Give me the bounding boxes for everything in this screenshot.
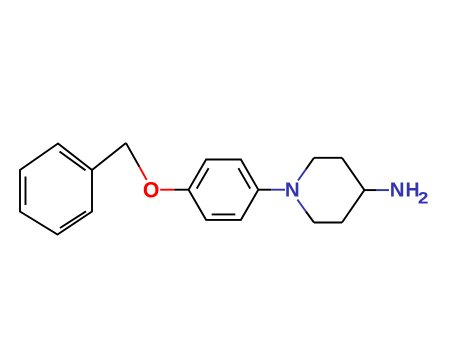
central benzene ring <box>189 160 259 220</box>
bond C4-NH2 black half <box>364 189 376 191</box>
NH2 amine label: H <box>405 179 419 202</box>
N atom label <box>285 179 300 202</box>
svg-text:O: O <box>143 177 160 203</box>
NH2 amine label: subscript 2 <box>418 189 429 208</box>
ring1 double bond LL-UL <box>25 177 27 206</box>
piperidine bottom edge <box>314 222 342 224</box>
bond ring2-N black half <box>258 189 271 191</box>
ring1 double bond LR-B <box>60 211 86 228</box>
ring2 double bond right-top <box>238 168 250 188</box>
svg-text:2: 2 <box>418 189 429 208</box>
ring2 double bond left-top <box>197 168 209 188</box>
svg-text:N: N <box>390 178 405 201</box>
bond C4-NH2 blue half <box>376 189 389 191</box>
benzyl phenyl ring <box>20 144 92 235</box>
piperidine N-TL bond blue half <box>298 169 306 180</box>
bond ring1-CH2 <box>92 143 126 170</box>
ring1 double bond T-UR <box>60 152 86 171</box>
bond O-ring2 red half <box>160 189 174 191</box>
bond ring2-N blue half <box>271 189 285 191</box>
piperidine N-BL bond black half <box>306 212 314 223</box>
NH2 amine label: N <box>390 178 405 201</box>
ring2 double bond bottom <box>212 213 236 215</box>
bond CH2-O black half <box>126 143 139 167</box>
O atom label <box>143 177 160 203</box>
piperidine top edge <box>314 157 342 159</box>
piperidine right-bottom edge <box>342 190 364 222</box>
piperidine right-top edge <box>342 158 364 190</box>
bond O-ring2 black half <box>175 189 189 191</box>
bond CH2-O red half <box>139 167 146 180</box>
svg-text:N: N <box>285 179 300 202</box>
piperidine N-BL bond blue half <box>297 200 306 212</box>
piperidine N-TL bond black half <box>306 158 314 169</box>
